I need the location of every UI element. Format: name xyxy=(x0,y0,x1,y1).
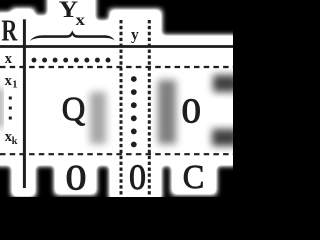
white area around overbrace xyxy=(19,21,120,38)
white area around corner label R xyxy=(0,13,28,38)
dashed row separator (below x row) xyxy=(0,66,233,68)
dark gaps inside the halo xyxy=(0,75,238,146)
dashed row separator (above bottom row) xyxy=(0,153,233,155)
svg-text:y: y xyxy=(131,26,139,43)
matrix left rule (vertical) xyxy=(23,19,26,188)
right edge notch below 0 xyxy=(212,129,238,146)
svg-text:C: C xyxy=(183,159,205,196)
matrix top rule (horizontal) xyxy=(0,45,233,48)
left edge sliver xyxy=(0,88,2,128)
white column around dashed separators to bottom xyxy=(110,160,161,200)
white area around bottom-left 0 xyxy=(55,160,96,194)
vertical ellipsis between x1 and xk xyxy=(9,97,12,100)
page background xyxy=(0,0,233,197)
svg-text:0: 0 xyxy=(129,157,146,197)
white area around C xyxy=(172,160,216,194)
svg-text:k: k xyxy=(12,136,18,147)
dark band between Q block and y column xyxy=(90,92,106,144)
white column around bottom of vertical rule xyxy=(12,160,35,196)
svg-text:x: x xyxy=(5,51,13,67)
svg-text:1: 1 xyxy=(12,80,17,91)
svg-text:Q: Q xyxy=(62,91,86,128)
white area above vertical rule xyxy=(12,9,34,37)
svg-text:0: 0 xyxy=(182,92,202,131)
row x entries: horizontal dot row xyxy=(32,58,111,63)
white area around y label and dashed column tops xyxy=(110,10,161,38)
white area around Y_x label xyxy=(48,0,95,35)
svg-text:R: R xyxy=(1,13,17,48)
svg-text:x: x xyxy=(76,12,86,29)
dashed column separator (left of y column) xyxy=(120,20,123,197)
overbrace for Y_x columns xyxy=(30,30,115,41)
ink layer xyxy=(0,0,233,198)
white halo region of the figure xyxy=(0,0,238,200)
dark band between y column and 0 block xyxy=(158,80,176,144)
dashed column separator (right of y column) xyxy=(148,20,151,197)
main matrix body white area xyxy=(0,36,238,165)
svg-text:0: 0 xyxy=(66,158,87,198)
right edge notch above 0 xyxy=(213,75,238,92)
